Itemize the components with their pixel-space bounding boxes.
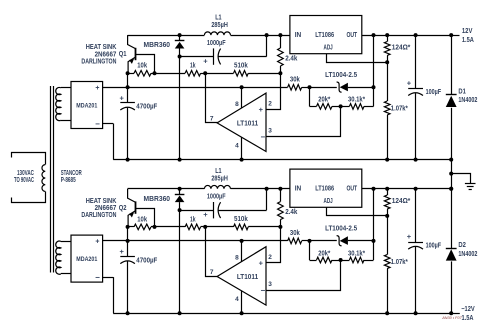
capacitor 4700µF	[127, 73, 129, 87]
svg-text:285µH: 285µH	[211, 22, 228, 29]
svg-text:−: −	[95, 273, 100, 282]
svg-text:130VAC: 130VAC	[17, 170, 34, 177]
svg-text:DARLINGTON: DARLINGTON	[81, 58, 116, 65]
transistor Q1 2N6667 Darlington	[128, 35, 136, 48]
wire OUT rail	[362, 188, 451, 190]
svg-text:285µH: 285µH	[211, 176, 228, 183]
LT1011 pin 8	[241, 87, 243, 108]
svg-text:7: 7	[210, 116, 214, 123]
diode MBR360	[178, 187, 182, 191]
bridge rectifier MDA201	[71, 82, 103, 129]
svg-text:IN: IN	[295, 186, 302, 193]
svg-text:4700µF: 4700µF	[136, 104, 158, 111]
svg-text:30.1k*: 30.1k*	[348, 97, 365, 104]
LT1011 pin 4	[241, 137, 243, 159]
wire OUT rail	[362, 35, 451, 37]
wire OUT to LT1004 node	[373, 35, 375, 87]
resistor 510k	[205, 73, 233, 75]
svg-text:HEAT SINK: HEAT SINK	[86, 44, 117, 51]
svg-text:124Ω*: 124Ω*	[392, 44, 411, 51]
svg-text:Q2: Q2	[119, 205, 127, 212]
svg-text:4700µF: 4700µF	[136, 257, 158, 264]
capacitor 100µF	[415, 35, 417, 88]
svg-text:MDA201: MDA201	[76, 102, 97, 109]
svg-text:AN30 • F07: AN30 • F07	[441, 316, 462, 320]
wire rectifier + row	[103, 87, 288, 89]
inductor L1 285µH	[204, 32, 230, 35]
svg-text:+: +	[120, 93, 125, 102]
svg-text:LT1011: LT1011	[237, 120, 258, 127]
resistor 2.4k	[278, 187, 282, 191]
svg-text:−: −	[95, 119, 100, 128]
svg-text:3: 3	[268, 128, 272, 135]
capacitor 4700µF	[127, 227, 129, 241]
node −12V output	[451, 313, 460, 315]
inductor L1 285µH	[204, 185, 230, 188]
LT1011 pin 4	[241, 291, 243, 313]
svg-text:OUT: OUT	[346, 32, 357, 39]
resistor 30k	[288, 238, 302, 244]
wire rectifier + row	[103, 240, 288, 242]
svg-text:2: 2	[268, 100, 272, 107]
svg-text:TO 90VAC: TO 90VAC	[14, 177, 34, 184]
svg-text:DARLINGTON: DARLINGTON	[81, 212, 116, 219]
LT1011 pin 7	[206, 74, 218, 123]
LT1011 pin 7	[206, 227, 218, 277]
capacitor 100µF	[415, 189, 417, 242]
svg-text:L1: L1	[215, 15, 221, 22]
wire OUT to LT1004 node	[373, 189, 375, 241]
svg-text:10k: 10k	[137, 63, 147, 70]
resistor 20k*	[309, 241, 311, 260]
transistor Q2 2N6667 Darlington	[128, 189, 136, 202]
svg-text:IN: IN	[295, 32, 302, 39]
svg-text:+: +	[95, 85, 99, 92]
svg-text:1.5A: 1.5A	[462, 315, 474, 322]
svg-text:20k*: 20k*	[318, 250, 330, 257]
reference diode LT1004-2.5	[310, 87, 337, 89]
svg-text:3: 3	[268, 281, 272, 288]
node +12V output	[451, 35, 459, 37]
svg-text:4: 4	[235, 296, 239, 303]
resistor 1.07k*	[387, 62, 389, 101]
wire common column	[451, 160, 453, 189]
svg-text:+: +	[259, 105, 264, 114]
svg-text:LT1004-2.5: LT1004-2.5	[325, 72, 357, 79]
svg-text:100µF: 100µF	[426, 89, 442, 96]
wire ADJ	[327, 54, 388, 63]
svg-text:+: +	[95, 239, 99, 246]
resistor 1k	[155, 226, 186, 228]
resistor 20k*	[309, 87, 311, 106]
svg-text:−12V: −12V	[461, 306, 475, 313]
svg-text:2: 2	[268, 254, 272, 261]
svg-text:124Ω*: 124Ω*	[392, 198, 411, 205]
svg-text:LT1011: LT1011	[237, 274, 258, 281]
diode MBR360	[178, 33, 182, 37]
wire top rail	[128, 188, 205, 190]
LT1011 pin 8	[241, 241, 243, 262]
transformer core	[50, 86, 52, 273]
transformer secondary winding	[56, 87, 61, 120]
svg-text:1000µF: 1000µF	[207, 40, 226, 47]
svg-text:+: +	[203, 210, 208, 219]
svg-text:L1: L1	[215, 168, 221, 175]
svg-text:LT1004-2.5: LT1004-2.5	[325, 226, 357, 233]
svg-text:8: 8	[235, 254, 239, 261]
diode D1 1N4002	[451, 35, 453, 95]
bridge rectifier MDA201	[71, 235, 103, 282]
transformer secondary winding	[56, 241, 61, 274]
svg-text:Q1: Q1	[119, 51, 127, 58]
svg-text:1.07k*: 1.07k*	[391, 105, 408, 112]
svg-text:30k: 30k	[290, 230, 300, 237]
svg-text:HEAT SINK: HEAT SINK	[86, 198, 117, 205]
LT1011 pin 3	[267, 107, 341, 137]
svg-text:−: −	[260, 286, 265, 295]
resistor 510k	[205, 226, 233, 228]
svg-text:7: 7	[210, 269, 214, 276]
svg-text:510k: 510k	[234, 62, 248, 69]
wire top rail	[128, 35, 205, 37]
LT1011 pin 3	[267, 261, 341, 291]
svg-text:20k*: 20k*	[318, 97, 330, 104]
svg-text:1N4002: 1N4002	[458, 97, 477, 104]
svg-text:OUT: OUT	[346, 186, 357, 193]
svg-text:D1: D1	[458, 88, 466, 95]
svg-text:8: 8	[235, 101, 239, 108]
resistor 30k	[288, 85, 302, 91]
op-amp U LT1011	[217, 93, 266, 151]
resistor 1k	[155, 73, 186, 75]
svg-text:1N4002: 1N4002	[458, 251, 477, 258]
svg-text:+: +	[407, 78, 412, 87]
svg-text:P-8685: P-8685	[61, 177, 76, 184]
LT1011 pin 2	[267, 74, 281, 110]
svg-text:2N6667: 2N6667	[95, 205, 117, 212]
svg-text:10k: 10k	[137, 216, 147, 223]
svg-text:1.5A: 1.5A	[462, 37, 474, 44]
svg-text:2.4k: 2.4k	[285, 56, 297, 63]
capacitor 1000µF	[180, 210, 214, 212]
resistor 1.07k*	[387, 216, 389, 255]
svg-text:1000µF: 1000µF	[207, 194, 226, 201]
svg-text:MDA201: MDA201	[76, 256, 97, 263]
op-amp U LT1011	[217, 247, 266, 305]
resistor 10k	[134, 71, 151, 77]
svg-text:MBR360: MBR360	[144, 196, 171, 203]
svg-text:+: +	[203, 56, 208, 65]
svg-text:30k: 30k	[290, 77, 300, 84]
svg-text:MBR360: MBR360	[144, 42, 171, 49]
LT1011 pin 2	[267, 227, 281, 263]
wire bottom rail	[113, 159, 451, 161]
capacitor 1000µF	[180, 56, 214, 58]
svg-text:ADJ: ADJ	[324, 198, 333, 205]
resistor 30.1k*	[341, 106, 350, 108]
svg-text:LT1086: LT1086	[315, 186, 334, 193]
resistor 2.4k	[278, 33, 282, 37]
svg-text:510k: 510k	[234, 216, 248, 223]
svg-text:+: +	[120, 247, 125, 256]
svg-text:STANCOR: STANCOR	[61, 170, 82, 177]
resistor 124Ω*	[387, 189, 389, 195]
ground	[452, 174, 471, 184]
svg-text:1k: 1k	[190, 216, 196, 223]
regulator U LT1086	[290, 16, 362, 54]
svg-text:30.1k*: 30.1k*	[348, 250, 365, 257]
resistor 124Ω*	[387, 35, 389, 41]
svg-text:D2: D2	[458, 242, 466, 249]
svg-text:12V: 12V	[462, 28, 473, 35]
wire bottom rail	[113, 313, 451, 315]
svg-text:−: −	[260, 133, 265, 142]
diode D2 1N4002	[451, 189, 453, 249]
svg-text:1.07k*: 1.07k*	[391, 259, 408, 266]
resistor 10k	[134, 224, 151, 230]
svg-text:4: 4	[235, 143, 239, 150]
svg-text:+: +	[259, 259, 264, 268]
resistor 30.1k*	[341, 260, 350, 262]
transformer T1 primary winding	[12, 153, 46, 165]
svg-text:2N6667: 2N6667	[95, 51, 117, 58]
svg-text:LT1086: LT1086	[315, 32, 334, 39]
wire ADJ	[327, 208, 388, 216]
reference diode LT1004-2.5	[310, 240, 337, 242]
svg-text:100µF: 100µF	[426, 243, 442, 250]
svg-text:ADJ: ADJ	[324, 45, 333, 52]
svg-text:2.4k: 2.4k	[285, 209, 297, 216]
svg-text:+: +	[407, 232, 412, 241]
regulator U LT1086	[290, 169, 362, 207]
svg-text:1k: 1k	[190, 63, 196, 70]
